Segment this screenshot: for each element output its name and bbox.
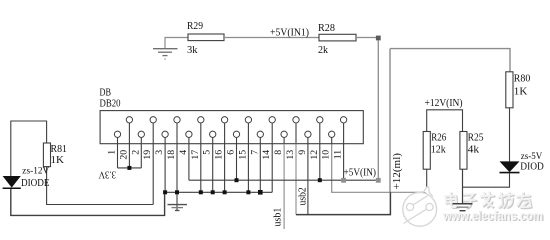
label +12(ml): [392, 153, 403, 190]
label pin 4: [178, 150, 189, 155]
svg-text:12k: 12k: [431, 145, 447, 156]
pin 8 circle: [281, 131, 287, 137]
label pin 10: [321, 150, 332, 160]
pin 13 circle: [293, 117, 299, 123]
node dot pin 7 bus B: [258, 190, 263, 195]
svg-text:2k: 2k: [318, 45, 329, 56]
pin 6 circle: [233, 131, 239, 137]
connector DB20: [100, 86, 364, 143]
watermark logo elecfans: [403, 187, 437, 227]
label pin 6: [226, 150, 237, 155]
wire pin 3: [164, 144, 166, 193]
pin 12 circle: [317, 117, 323, 123]
svg-text:3.3V: 3.3V: [98, 169, 116, 180]
node dot pin 15 bus B: [246, 190, 250, 194]
wire pin 6: [236, 144, 238, 181]
svg-text:DIODE: DIODE: [21, 178, 50, 189]
label +12V(IN): [425, 98, 463, 109]
node dot pin 12 bus A: [318, 178, 322, 182]
wire pin 2: [140, 144, 142, 168]
svg-text:+5V(IN): +5V(IN): [344, 168, 377, 179]
resistor R80 1K: [506, 72, 531, 108]
svg-text:15: 15: [237, 150, 248, 160]
wire pin 4: [188, 144, 190, 181]
label pin 15: [237, 150, 248, 160]
wire pin 8: [283, 144, 285, 229]
resistor R26 12k: [423, 132, 446, 170]
svg-text:zs-12V: zs-12V: [22, 167, 49, 177]
label pin 16: [214, 150, 225, 160]
svg-text:8: 8: [273, 150, 284, 155]
pin 2 circle: [138, 131, 144, 137]
net 3.3V pins 1,20,2: [118, 167, 142, 169]
wire pin 12: [319, 144, 321, 181]
wire pin 11: [343, 144, 345, 181]
pin 1 circle: [114, 131, 120, 137]
wire R29 to R28 net +5V(IN1): [224, 27, 319, 38]
pin 16 circle: [221, 117, 227, 123]
resistor R25 4k: [460, 132, 484, 170]
pin 3 circle: [162, 131, 168, 137]
wire R81 bottom to pin 19: [47, 167, 154, 205]
node dot pin 6 bus A: [235, 178, 239, 182]
wire R80 to diode: [509, 108, 511, 162]
svg-text:4: 4: [178, 150, 189, 155]
svg-text:3: 3: [154, 150, 165, 155]
node dot on pin 20: [127, 166, 131, 170]
pin 14 circle: [269, 117, 275, 123]
svg-text:+5V(IN1): +5V(IN1): [270, 27, 309, 38]
label pin 17: [190, 150, 201, 160]
ground (below bus B): [168, 205, 188, 211]
wire pin 1: [117, 144, 119, 168]
svg-text:5: 5: [202, 150, 213, 155]
svg-text:16: 16: [214, 150, 225, 160]
wire rail pins 13,9: [296, 192, 390, 214]
svg-text:4k: 4k: [468, 145, 480, 156]
pin 19 circle: [150, 117, 156, 123]
label pin 2: [130, 150, 141, 155]
resistor R81 1K: [43, 143, 67, 167]
node junction after R28: [376, 36, 381, 41]
label pin 3: [154, 150, 165, 155]
wire pin 5: [212, 144, 214, 193]
wire R28 to junction: [356, 37, 378, 39]
node dot pin 3 bus B: [163, 190, 167, 194]
svg-text:2: 2: [130, 150, 141, 155]
watermark text www.elecfans.com: [442, 208, 544, 224]
svg-text:+12(ml): +12(ml): [392, 153, 403, 190]
svg-text:zs-5V: zs-5V: [521, 152, 543, 162]
label pin 8: [273, 150, 284, 155]
svg-text:+12V(IN): +12V(IN): [425, 98, 463, 109]
svg-text:17: 17: [190, 150, 201, 160]
wire pin 10 to R26 bottom: [332, 144, 427, 193]
svg-text:20: 20: [118, 150, 129, 160]
svg-text:14: 14: [261, 150, 272, 160]
label pin 14: [261, 150, 272, 160]
wire pin 20: [128, 144, 130, 168]
watermark text dianzifashaoyou: [446, 192, 532, 208]
wire left loop top: [11, 121, 47, 176]
label +5V(IN): [344, 168, 377, 179]
node dot pin 18 bus B: [175, 190, 179, 194]
node square +5V right end: [376, 178, 381, 183]
svg-text:DIOD: DIOD: [520, 161, 544, 172]
pin 20 circle: [126, 117, 132, 123]
svg-text:3k: 3k: [187, 45, 198, 56]
svg-text:R29: R29: [187, 21, 203, 32]
node dot pin 16 bus B: [223, 190, 227, 194]
svg-text:18: 18: [166, 150, 177, 160]
node dot pin 17 bus B: [199, 190, 203, 194]
wire pin 7: [259, 144, 261, 193]
label pin 12: [309, 150, 320, 160]
label pin 7: [249, 150, 260, 155]
wire +12V(IN) frame: [427, 110, 463, 132]
svg-text:DB: DB: [100, 86, 112, 98]
pin 4 circle: [186, 131, 192, 137]
bus A +5V net: [189, 179, 378, 181]
label usb2: [297, 187, 308, 205]
pin 9 circle: [305, 131, 311, 137]
resistor R28 2k: [318, 23, 356, 56]
wire ground to R29: [165, 38, 188, 49]
wire pin 14: [271, 144, 273, 193]
svg-text:1K: 1K: [51, 155, 65, 166]
svg-text:R26: R26: [431, 133, 446, 144]
label pin 18: [166, 150, 177, 160]
svg-text:19: 19: [142, 150, 153, 160]
wire pin 16: [224, 144, 226, 193]
ground (below R25): [453, 204, 473, 211]
svg-text:www.elecfans.com: www.elecfans.com: [442, 208, 543, 223]
bus B ground net: [165, 191, 273, 193]
label pin 11: [333, 150, 344, 160]
svg-text:7: 7: [249, 150, 260, 155]
wire pin 9: [307, 144, 309, 215]
svg-text:usb1: usb1: [273, 208, 284, 227]
wire diode down left to R25: [463, 173, 510, 187]
svg-text:9: 9: [297, 150, 308, 155]
pin 5 circle: [210, 131, 216, 137]
diode zs-12V: [3, 167, 50, 189]
svg-text:13: 13: [285, 150, 296, 160]
svg-text:12: 12: [309, 150, 320, 160]
svg-text:R28: R28: [318, 23, 335, 34]
label 3.3V: [98, 169, 116, 180]
label pin 13: [285, 150, 296, 160]
svg-text:R25: R25: [468, 133, 484, 144]
node square pin 11 bus A: [341, 178, 346, 183]
wire R26 bottom stub: [426, 169, 428, 192]
pin 15 circle: [245, 117, 251, 123]
label pin 1: [107, 150, 118, 155]
svg-text:DB20: DB20: [100, 98, 121, 110]
wire +12(ml) vertical: [389, 49, 391, 193]
node dot pin 5 bus B: [211, 190, 215, 194]
wire diode to bottom rail: [11, 189, 165, 215]
svg-text:1: 1: [107, 150, 118, 155]
label pin 5: [202, 150, 213, 155]
label pin 20: [118, 150, 129, 160]
resistor R29 3k: [187, 21, 224, 56]
diode zs-5V: [500, 152, 544, 173]
wire pin 17: [200, 144, 202, 193]
label usb1: [273, 208, 284, 227]
wire pin 19: [152, 144, 154, 205]
wire pin 18: [176, 144, 178, 211]
label pin 9: [297, 150, 308, 155]
wire junction down to +5V(IN): [377, 40, 379, 180]
svg-text:6: 6: [226, 150, 237, 155]
svg-text:10: 10: [321, 150, 332, 160]
pin 10 circle: [329, 131, 335, 137]
ground (top left): [153, 49, 178, 59]
svg-text:usb2: usb2: [297, 187, 308, 205]
wire pin 15: [247, 144, 249, 193]
svg-text:1K: 1K: [514, 87, 528, 98]
label pin 19: [142, 150, 153, 160]
wire R25 bottom stub: [462, 169, 464, 203]
pin 11 circle: [340, 117, 346, 123]
svg-text:R81: R81: [51, 144, 68, 155]
wire pin 13: [295, 144, 297, 215]
svg-text:11: 11: [333, 150, 344, 160]
wire +12 top loop: [390, 49, 510, 72]
pin 18 circle: [174, 117, 180, 123]
svg-text:R80: R80: [514, 73, 531, 84]
pin 17 circle: [198, 117, 204, 123]
pin 7 circle: [257, 131, 263, 137]
